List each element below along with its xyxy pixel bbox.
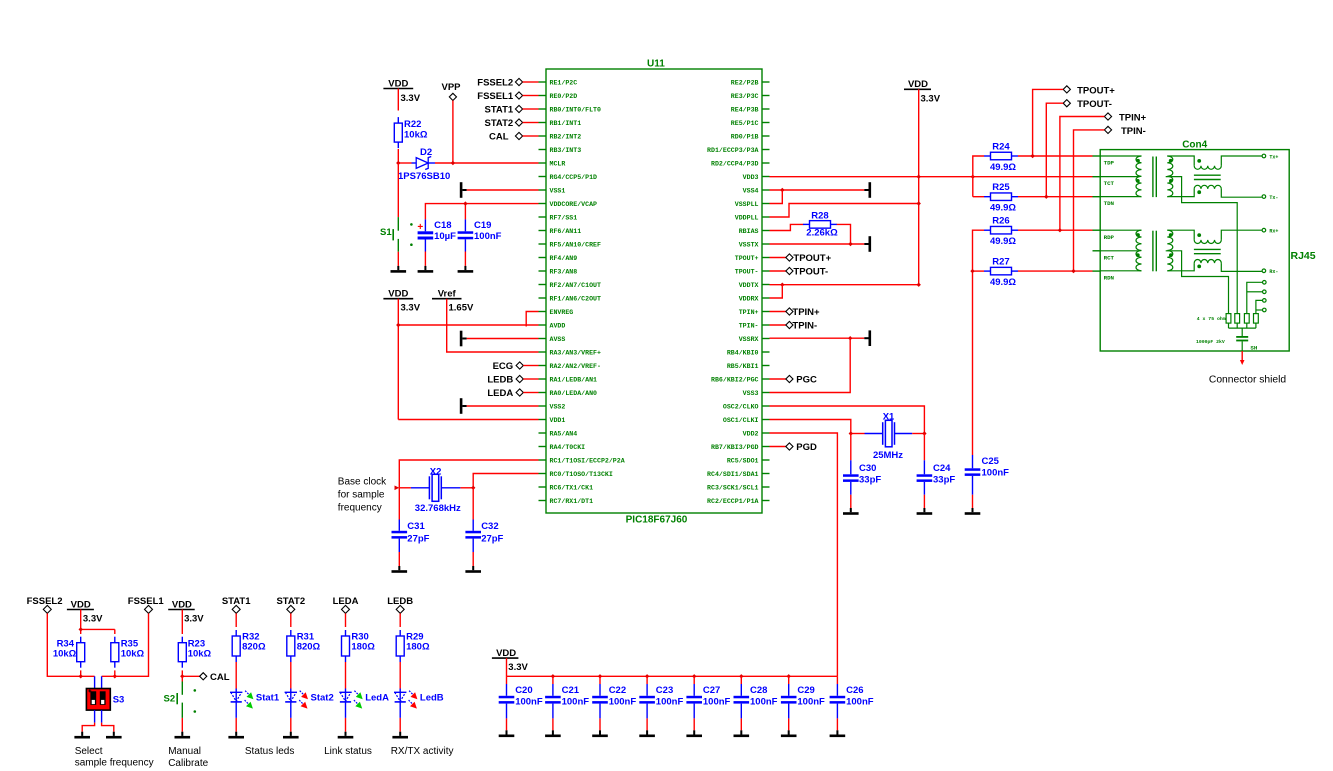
- node junction VSSRX/VSS3: [848, 336, 852, 340]
- svg-text:C30: C30: [859, 463, 876, 474]
- power VDD (left-middle 3.3V): [383, 289, 420, 314]
- node junction TPOUT+ to TDP: [1030, 154, 1034, 158]
- label R22 10k: [404, 119, 428, 141]
- svg-text:Vref: Vref: [438, 289, 457, 300]
- capacitor 1000pF 2kV (shield): [1236, 328, 1248, 351]
- svg-text:Rx+: Rx+: [1269, 229, 1278, 235]
- svg-text:VPP: VPP: [441, 82, 461, 93]
- svg-text:49.9Ω: 49.9Ω: [990, 162, 1016, 173]
- svg-text:100nF: 100nF: [846, 697, 874, 708]
- svg-text:VDDCORE/VCAP: VDDCORE/VCAP: [550, 201, 598, 208]
- svg-text:frequency: frequency: [338, 503, 382, 514]
- svg-text:RX/TX activity: RX/TX activity: [391, 746, 454, 757]
- svg-text:VSSRX: VSSRX: [739, 336, 759, 343]
- LED Stat1: [230, 689, 253, 718]
- svg-text:10kΩ: 10kΩ: [188, 648, 212, 659]
- port FSSEL2 (to U11): [477, 77, 538, 88]
- wire R22 to MCLR node: [397, 149, 399, 163]
- svg-text:TPOUT-: TPOUT-: [793, 267, 828, 278]
- capacitor C19 100nF: [458, 219, 474, 266]
- ground under LedA: [345, 732, 347, 736]
- pin Rx-: [1262, 269, 1278, 275]
- svg-text:FSSEL1: FSSEL1: [477, 91, 514, 102]
- svg-text:RF3/AN8: RF3/AN8: [550, 268, 578, 275]
- wire TX center tap to termination: [1166, 177, 1238, 314]
- port TPIN- (at U11): [770, 321, 818, 332]
- node junction R28/VSSTX: [848, 242, 852, 246]
- svg-text:RD0/P1B: RD0/P1B: [731, 133, 759, 140]
- svg-text:C31: C31: [407, 521, 425, 532]
- ground under C18: [424, 266, 426, 270]
- resistor R28 2.26k (RBIAS): [770, 221, 865, 244]
- wire VSS4 to ground: [770, 189, 865, 191]
- svg-text:FSSEL2: FSSEL2: [27, 596, 63, 607]
- svg-text:3.3V: 3.3V: [508, 662, 528, 673]
- ground under Stat2: [290, 732, 292, 736]
- capacitor C29 100nF: [781, 676, 797, 730]
- wire Stat1 to ground: [235, 718, 237, 732]
- svg-text:for sample: for sample: [338, 490, 385, 501]
- diode D2: [398, 157, 538, 170]
- svg-text:RDN: RDN: [1104, 274, 1115, 281]
- svg-text:TPOUT-: TPOUT-: [735, 268, 759, 275]
- node junction R27 left: [970, 269, 974, 273]
- ground under C30: [850, 508, 852, 512]
- label R34 10k: [53, 638, 77, 659]
- svg-text:1.65V: 1.65V: [449, 303, 474, 314]
- svg-text:27pF: 27pF: [407, 534, 429, 545]
- svg-text:R26: R26: [992, 216, 1009, 227]
- svg-text:820Ω: 820Ω: [297, 642, 321, 653]
- svg-text:LEDB: LEDB: [487, 374, 513, 385]
- svg-text:C32: C32: [481, 521, 498, 532]
- wire VDD to R22: [397, 89, 399, 111]
- svg-text:1000pF 2kV: 1000pF 2kV: [1196, 339, 1225, 345]
- svg-text:VDD: VDD: [388, 289, 408, 300]
- svg-text:RF1/AN6/C2OUT: RF1/AN6/C2OUT: [550, 295, 601, 302]
- svg-text:Rx-: Rx-: [1269, 269, 1278, 275]
- wire VSSRX to ground: [770, 337, 865, 339]
- ground under S3 right: [113, 732, 115, 736]
- node junction R34 bottom: [79, 674, 83, 678]
- switch S1: [393, 163, 413, 266]
- svg-text:4 x 75 ohm: 4 x 75 ohm: [1197, 316, 1226, 322]
- node junction C19 top: [463, 201, 467, 205]
- svg-text:RA3/AN3/VREF+: RA3/AN3/VREF+: [550, 349, 601, 356]
- capacitor C30 33pF: [843, 434, 859, 509]
- ground under C27: [693, 730, 695, 734]
- svg-text:R22: R22: [404, 119, 421, 130]
- svg-text:R25: R25: [992, 182, 1010, 193]
- svg-text:Select: Select: [75, 746, 103, 757]
- ground under LedB: [399, 732, 401, 736]
- annotation Manual Calibrate: [168, 746, 208, 769]
- svg-text:RC7/RX1/DT1: RC7/RX1/DT1: [550, 498, 594, 505]
- svg-text:10kΩ: 10kΩ: [53, 648, 77, 659]
- resistor R23 10k: [178, 610, 186, 677]
- svg-text:RBIAS: RBIAS: [739, 228, 759, 235]
- svg-text:RB7/KBI3/PGD: RB7/KBI3/PGD: [711, 444, 759, 451]
- node junction bus at C22: [598, 674, 602, 678]
- label C29 100nF: [797, 685, 825, 708]
- svg-text:S3: S3: [113, 695, 125, 706]
- svg-text:100nF: 100nF: [609, 697, 637, 708]
- label C27 100nF: [703, 685, 731, 708]
- port VPP: [441, 82, 461, 101]
- label R31 820Ω: [297, 631, 321, 652]
- wire VSSPLL tie: [770, 190, 783, 204]
- power VDD (top-left 3.3V): [383, 79, 420, 105]
- svg-text:S2: S2: [164, 694, 176, 705]
- svg-text:49.9Ω: 49.9Ω: [990, 203, 1016, 214]
- resistor R34 10k: [77, 637, 85, 677]
- node junction X1 left / C30: [849, 431, 853, 435]
- node junction VDD R34: [79, 627, 83, 631]
- ground under C20: [506, 730, 508, 734]
- resistor R26 49.9: [973, 226, 1093, 271]
- port CAL (to U11): [489, 131, 539, 142]
- svg-text:VDDPLL: VDDPLL: [735, 214, 759, 221]
- svg-text:R27: R27: [992, 257, 1009, 268]
- svg-text:LEDA: LEDA: [487, 388, 513, 399]
- svg-text:LedB: LedB: [420, 693, 444, 704]
- annotation Base clock for sample frequency: [338, 477, 387, 514]
- svg-text:VDD: VDD: [908, 79, 928, 90]
- svg-text:RB5/KBI1: RB5/KBI1: [727, 363, 759, 370]
- wire VDD down to VDD3 rail: [918, 89, 920, 284]
- svg-text:100nF: 100nF: [656, 697, 684, 708]
- label R27 49.9: [990, 257, 1016, 289]
- node junction TPIN- to RDN: [1071, 269, 1075, 273]
- port PGC: [770, 374, 818, 385]
- svg-text:PIC18F67J60: PIC18F67J60: [626, 515, 688, 526]
- wire SH shield stub: [1240, 351, 1245, 365]
- svg-text:RD2/CCP4/P3D: RD2/CCP4/P3D: [711, 160, 759, 167]
- port STAT2 (bottom): [276, 596, 305, 613]
- ground under S2: [181, 732, 183, 736]
- wire VDD cap-bank bus: [507, 658, 838, 676]
- wire VDDRX tie: [770, 285, 783, 298]
- crystal X2 32.768kHz: [395, 474, 474, 501]
- LED Stat2: [285, 689, 308, 718]
- wire RC0 to X2 right: [473, 474, 538, 488]
- ground at VSSRX (sideways): [864, 337, 868, 339]
- ground under C29: [788, 730, 790, 734]
- wire LEDB to R29: [399, 613, 401, 627]
- svg-text:C29: C29: [797, 685, 814, 696]
- label R32 820Ω: [242, 631, 266, 652]
- resistor R30 180Ω: [342, 630, 350, 662]
- wire FSSEL1 to S3: [102, 613, 149, 676]
- label C23 100nF: [656, 685, 684, 708]
- transformer TX (upper magnetics in Con4): [1100, 156, 1262, 197]
- svg-text:VDD2: VDD2: [743, 430, 759, 437]
- power VDD (top-right 3.3V): [904, 79, 941, 105]
- wire STAT2 to R31: [290, 613, 292, 627]
- label R26 49.9: [990, 216, 1016, 248]
- resistors 4 x 75 ohm termination: [1226, 314, 1258, 329]
- label R24 49.9: [990, 142, 1016, 174]
- label C24 33pF: [933, 463, 955, 486]
- svg-text:RD1/ECCP3/P3A: RD1/ECCP3/P3A: [707, 147, 758, 154]
- capacitor C22 100nF: [592, 676, 608, 730]
- svg-text:C21: C21: [562, 685, 580, 696]
- pin Tx+: [1262, 154, 1278, 160]
- svg-text:C24: C24: [933, 463, 951, 474]
- capacitor C21 100nF: [545, 676, 561, 730]
- svg-text:VDD: VDD: [496, 648, 516, 659]
- node junction CAL tap: [180, 674, 184, 678]
- label R29 180Ω: [406, 631, 430, 652]
- ground at AVSS (sideways): [460, 331, 467, 347]
- wire OSC1/CLKI to X1 left: [770, 420, 851, 434]
- IC U11 PIC18F67J60 body: [546, 69, 762, 513]
- svg-text:ENVREG: ENVREG: [550, 309, 574, 316]
- svg-text:Base clock: Base clock: [338, 477, 387, 488]
- capacitor C18 (10uF electrolytic): [417, 219, 433, 266]
- svg-text:AVSS: AVSS: [550, 336, 566, 343]
- ground under C23: [646, 730, 648, 734]
- wire VDD3 to R24/R25 and Con4 TCT: [770, 176, 1093, 178]
- svg-text:49.9Ω: 49.9Ω: [990, 277, 1016, 288]
- svg-text:RF5/AN10/CREF: RF5/AN10/CREF: [550, 241, 601, 248]
- wire OSC2/CLKO to X1 right: [770, 406, 925, 434]
- node junction VDDTX/VDDRX: [780, 283, 784, 287]
- label R25 49.9: [990, 182, 1016, 214]
- svg-text:VDD: VDD: [388, 79, 408, 90]
- svg-text:TPIN-: TPIN-: [792, 321, 817, 332]
- svg-text:RB4/KBI0: RB4/KBI0: [727, 349, 759, 356]
- Con4 pin labels TDP TCT TDN: [1104, 160, 1115, 208]
- svg-text:MCLR: MCLR: [550, 160, 566, 167]
- svg-text:100nF: 100nF: [982, 468, 1010, 479]
- svg-text:3.3V: 3.3V: [921, 94, 941, 105]
- wire R30 to LED LedA: [345, 662, 347, 689]
- svg-text:33pF: 33pF: [859, 475, 881, 486]
- svg-text:1PS76SB10: 1PS76SB10: [398, 171, 450, 182]
- svg-text:CAL: CAL: [210, 672, 230, 683]
- LED LedB: [394, 689, 417, 718]
- ground under C22: [599, 730, 601, 734]
- svg-text:10kΩ: 10kΩ: [121, 648, 145, 659]
- svg-text:sample frequency: sample frequency: [75, 758, 154, 769]
- svg-text:RB6/KBI2/PGC: RB6/KBI2/PGC: [711, 376, 759, 383]
- svg-text:TPIN-: TPIN-: [1121, 126, 1146, 137]
- svg-text:3.3V: 3.3V: [184, 614, 204, 625]
- svg-text:RC3/SCK1/SCL1: RC3/SCK1/SCL1: [707, 484, 758, 491]
- resistor R31 820Ω: [287, 630, 295, 662]
- svg-text:TPIN+: TPIN+: [792, 307, 820, 318]
- wire VDDPLL to VDD rail: [770, 204, 919, 218]
- svg-text:C27: C27: [703, 685, 720, 696]
- ground at VSSTX (sideways): [864, 243, 868, 245]
- node junction bus at C28: [739, 674, 743, 678]
- wire VDD to AVDD and VDD1: [398, 299, 538, 420]
- wire VSSTX to ground: [770, 243, 851, 245]
- svg-text:X2: X2: [430, 467, 442, 478]
- svg-text:RC1/T1OSI/ECCP2/P2A: RC1/T1OSI/ECCP2/P2A: [550, 457, 625, 464]
- wire RX center tap to termination: [1166, 251, 1229, 314]
- svg-text:TPOUT-: TPOUT-: [1077, 99, 1112, 110]
- svg-text:RC0/T1OSO/T13CKI: RC0/T1OSO/T13CKI: [550, 471, 613, 478]
- wire Stat2 to ground: [290, 718, 292, 732]
- wire AVSS to ground: [467, 338, 539, 340]
- svg-text:27pF: 27pF: [481, 534, 503, 545]
- ground under S1: [397, 266, 399, 270]
- node MCLR junction at R22/D2: [396, 161, 400, 165]
- svg-text:10kΩ: 10kΩ: [404, 130, 428, 141]
- label C21 100nF: [562, 685, 590, 708]
- svg-text:X1: X1: [883, 412, 895, 423]
- capacitor C31 27pF: [392, 488, 408, 566]
- wire VDD to R34/R35: [81, 610, 115, 635]
- svg-text:RE3/P3C: RE3/P3C: [731, 93, 759, 100]
- label C22 100nF: [609, 685, 637, 708]
- svg-text:RB2/INT2: RB2/INT2: [550, 133, 582, 140]
- node junction VSS4/VSSPLL: [780, 188, 784, 192]
- capacitor C32 27pF: [465, 488, 481, 566]
- port CAL (bottom): [182, 672, 229, 683]
- Con4 pin labels RDP RCT RDN: [1104, 234, 1115, 282]
- Con4 left pin stubs: [1093, 156, 1101, 271]
- ground at VSS1 (sideways): [460, 182, 467, 198]
- U11 left pin stubs: [539, 82, 547, 501]
- svg-text:RE4/P3B: RE4/P3B: [731, 106, 759, 113]
- svg-text:TDP: TDP: [1104, 160, 1115, 167]
- wire VDDCORE/VCAP to C18/C19: [425, 204, 538, 220]
- ground under C31: [398, 566, 400, 570]
- svg-text:33pF: 33pF: [933, 475, 955, 486]
- svg-text:RA4/T0CKI: RA4/T0CKI: [550, 444, 586, 451]
- wire LedB to ground: [399, 718, 401, 732]
- svg-text:3.3V: 3.3V: [83, 614, 103, 625]
- transformer RX (lower magnetics in Con4): [1100, 230, 1262, 271]
- wire LEDA to R30: [345, 613, 347, 627]
- svg-text:D2: D2: [420, 147, 432, 158]
- svg-text:Connector shield: Connector shield: [1209, 374, 1287, 385]
- node junction TPOUT- to TDN: [1044, 195, 1048, 199]
- svg-text:RC5/SDO1: RC5/SDO1: [727, 457, 759, 464]
- annotation Select sample frequency: [75, 746, 154, 769]
- label C30 33pF: [859, 463, 881, 486]
- pin Tx-: [1262, 195, 1278, 201]
- resistor R29 180Ω: [396, 630, 404, 662]
- connector Con4 RJ45 body: [1100, 150, 1289, 351]
- port LEDA (bottom): [333, 596, 359, 613]
- svg-text:RB0/INT0/FLT0: RB0/INT0/FLT0: [550, 106, 601, 113]
- svg-text:C19: C19: [474, 220, 491, 231]
- svg-text:VSS3: VSS3: [743, 390, 759, 397]
- svg-text:RF7/SS1: RF7/SS1: [550, 214, 578, 221]
- label C19 100nF: [474, 220, 502, 242]
- ground under C26: [836, 730, 838, 734]
- label X1 25MHz: [873, 412, 903, 462]
- svg-text:RC2/ECCP1/P1A: RC2/ECCP1/P1A: [707, 498, 758, 505]
- svg-text:100nF: 100nF: [474, 231, 502, 242]
- svg-text:49.9Ω: 49.9Ω: [990, 236, 1016, 247]
- port ECG: [493, 361, 539, 372]
- port TPOUT+ (net at R24): [1033, 85, 1116, 156]
- svg-text:100nF: 100nF: [797, 697, 825, 708]
- LED LedA: [339, 689, 362, 718]
- wire VDD2 to cap bank: [770, 433, 838, 676]
- svg-text:TPOUT+: TPOUT+: [735, 255, 759, 262]
- resistor R27 49.9: [973, 267, 1093, 275]
- ground under C19: [464, 266, 466, 270]
- ground at VSS2 (sideways): [460, 398, 467, 414]
- port FSSEL2 (bottom): [27, 596, 63, 613]
- power VDD (bottom 3.3V): [492, 648, 529, 673]
- svg-text:R24: R24: [992, 142, 1010, 153]
- svg-text:RB3/INT3: RB3/INT3: [550, 147, 582, 154]
- wire VSS3 tie to VSSRX: [770, 338, 851, 392]
- svg-text:32.768kHz: 32.768kHz: [415, 503, 461, 514]
- svg-text:TPIN+: TPIN+: [739, 309, 759, 316]
- svg-text:180Ω: 180Ω: [406, 642, 430, 653]
- svg-text:TPIN-: TPIN-: [739, 322, 759, 329]
- capacitor C24 33pF: [917, 434, 933, 509]
- svg-text:RE1/P2C: RE1/P2C: [550, 79, 578, 86]
- U11 right pin names: [707, 79, 758, 505]
- svg-text:3.3V: 3.3V: [401, 303, 421, 314]
- ground under C25: [972, 508, 974, 512]
- svg-text:Calibrate: Calibrate: [168, 758, 208, 769]
- label C31 27pF: [407, 521, 429, 545]
- svg-text:100nF: 100nF: [562, 697, 590, 708]
- resistor R22: [394, 117, 402, 148]
- node junction VDDPLL on VDD rail: [917, 201, 921, 205]
- svg-text:RE0/P2D: RE0/P2D: [550, 93, 578, 100]
- capacitor C20 100nF: [499, 676, 515, 730]
- ground under S3 left: [81, 732, 83, 736]
- node junction R35 bottom: [113, 674, 117, 678]
- port TPOUT- (net at R25): [1046, 99, 1112, 197]
- svg-text:RF2/AN7/C1OUT: RF2/AN7/C1OUT: [550, 282, 601, 289]
- svg-text:RE2/P2B: RE2/P2B: [731, 79, 759, 86]
- svg-text:C22: C22: [609, 685, 626, 696]
- port TPOUT+ (at U11): [770, 253, 832, 264]
- node junction VDD vertical x VDD3: [917, 175, 921, 179]
- label C32 27pF: [481, 521, 503, 545]
- wire STAT1 to R32: [235, 613, 237, 627]
- svg-text:820Ω: 820Ω: [242, 642, 266, 653]
- wire Vref to RA3/VREF+: [447, 299, 539, 352]
- resistor R24 49.9: [973, 152, 1093, 196]
- svg-text:Link status: Link status: [324, 746, 372, 757]
- svg-text:C20: C20: [515, 685, 532, 696]
- crystal X1 25MHz: [851, 420, 925, 447]
- svg-text:Status leds: Status leds: [245, 746, 294, 757]
- port TPIN- (net at R27): [1074, 126, 1146, 271]
- svg-text:100nF: 100nF: [703, 697, 731, 708]
- port TPIN+ (at U11): [770, 307, 821, 318]
- node junction bus at C29: [787, 674, 791, 678]
- port LEDA: [487, 388, 538, 399]
- svg-text:ECG: ECG: [493, 361, 514, 372]
- port FSSEL1 (to U11): [477, 91, 538, 102]
- node junction bus at C21: [551, 674, 555, 678]
- svg-text:VDD: VDD: [172, 599, 192, 610]
- svg-text:2.26kΩ: 2.26kΩ: [806, 227, 838, 238]
- svg-text:RB1/INT1: RB1/INT1: [550, 120, 582, 127]
- svg-text:PGC: PGC: [796, 374, 817, 385]
- label C18 10uF: [434, 220, 456, 242]
- svg-text:OSC1/CLKI: OSC1/CLKI: [723, 417, 759, 424]
- wire ENVREG tie to AVDD: [526, 312, 538, 327]
- svg-text:TCT: TCT: [1104, 180, 1115, 187]
- label C26 100nF: [846, 685, 874, 708]
- wire R29 to LED LedB: [399, 662, 401, 689]
